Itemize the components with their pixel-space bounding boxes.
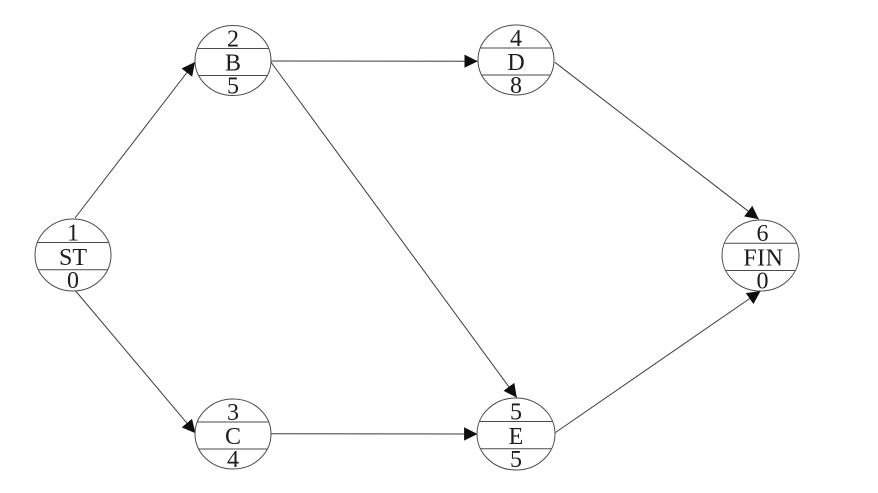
- svg-text:8: 8: [510, 73, 522, 99]
- svg-text:ST: ST: [59, 245, 87, 271]
- svg-text:5: 5: [510, 400, 522, 426]
- svg-text:0: 0: [67, 268, 79, 294]
- svg-text:4: 4: [227, 447, 239, 473]
- wire ST->C: [74, 289, 196, 433]
- node 2 B: [194, 26, 272, 100]
- svg-text:E: E: [509, 424, 524, 450]
- svg-text:0: 0: [757, 269, 769, 295]
- svg-text:3: 3: [227, 400, 239, 426]
- svg-text:4: 4: [510, 26, 522, 52]
- svg-text:6: 6: [757, 221, 769, 247]
- node 1 ST: [34, 219, 112, 294]
- svg-text:5: 5: [227, 73, 239, 99]
- svg-text:FIN: FIN: [743, 245, 783, 271]
- svg-text:1: 1: [67, 221, 79, 247]
- node 3 C: [194, 399, 272, 473]
- wire D->FIN: [555, 62, 759, 219]
- node 5 E: [476, 398, 556, 473]
- wire ST->B: [75, 62, 195, 218]
- wire E->FIN: [556, 291, 761, 433]
- svg-text:2: 2: [227, 26, 239, 52]
- wire B->D: [270, 60, 477, 62]
- wire C->E: [271, 433, 478, 435]
- node 6 FIN: [721, 220, 800, 295]
- wire B->E: [271, 62, 517, 398]
- svg-text:5: 5: [510, 447, 522, 473]
- node 4 D: [477, 25, 555, 99]
